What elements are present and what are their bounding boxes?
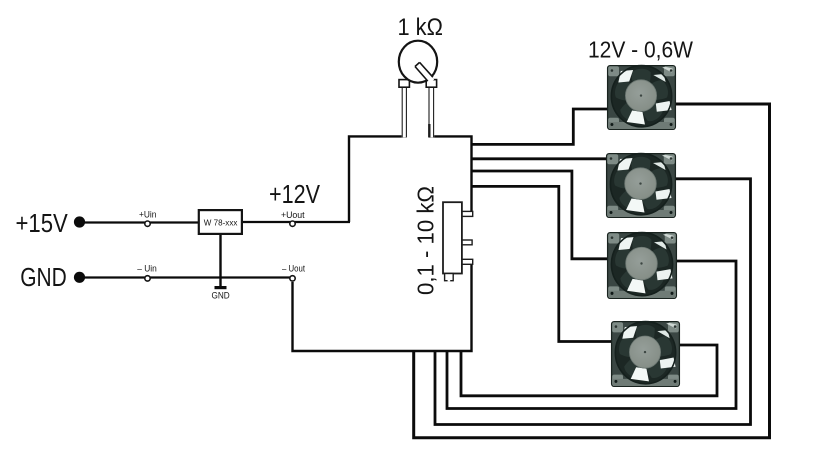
svg-text:GND: GND (212, 291, 231, 301)
svg-text:12V - 0,6W: 12V - 0,6W (588, 37, 693, 63)
svg-text:– Uin: – Uin (137, 264, 157, 274)
svg-text:1 kΩ: 1 kΩ (398, 14, 443, 41)
svg-text:+Uout: +Uout (281, 210, 305, 220)
svg-text:– Uout: – Uout (282, 264, 305, 274)
svg-text:+12V: +12V (269, 179, 321, 209)
svg-text:+15V: +15V (16, 208, 69, 238)
svg-text:W 78-xxx: W 78-xxx (204, 218, 238, 228)
svg-text:GND: GND (20, 262, 66, 292)
svg-text:+Uin: +Uin (139, 210, 156, 220)
svg-text:0,1 - 10 kΩ: 0,1 - 10 kΩ (413, 186, 439, 295)
